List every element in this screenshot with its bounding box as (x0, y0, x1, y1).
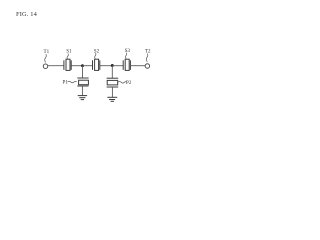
wire S1 to node A (71, 65, 82, 67)
svg-text:P1: P1 (63, 80, 69, 86)
svg-text:S2: S2 (94, 48, 100, 54)
terminal T2 (145, 64, 150, 69)
node B junction dot (111, 64, 114, 67)
wire T1 to S1 (48, 65, 64, 67)
leader squiggle to T1 (45, 54, 47, 63)
resonator P2 (107, 78, 119, 87)
svg-text:P2: P2 (126, 80, 132, 86)
leader squiggle to S2 (95, 53, 96, 59)
resonator S3 (123, 59, 130, 70)
wire P1 to ground (81, 86, 83, 96)
wire node B to S3 (112, 65, 123, 67)
resonator S1 (64, 59, 71, 70)
leader squiggle to S3 (125, 53, 126, 59)
wire S2 to node B (100, 65, 112, 67)
svg-text:FIG. 14: FIG. 14 (16, 11, 38, 18)
ground at P2 (107, 97, 117, 101)
leader squiggle to P2 (118, 82, 127, 84)
leader squiggle to T2 (146, 54, 148, 62)
resonator S2 (93, 59, 100, 70)
wire S3 to T2 (131, 65, 146, 67)
wire P2 to ground (111, 87, 113, 97)
wire node B down to P2 (111, 66, 113, 79)
svg-text:T2: T2 (145, 49, 151, 55)
svg-text:S1: S1 (66, 49, 72, 55)
leader squiggle to S1 (67, 54, 68, 60)
svg-text:T1: T1 (44, 49, 50, 55)
leader squiggle to P1 (68, 81, 77, 83)
resonator P1 (77, 78, 88, 86)
svg-text:S3: S3 (125, 48, 131, 54)
ground at P1 (78, 96, 87, 100)
wire node A to S2 (83, 65, 93, 67)
terminal T1 (43, 64, 48, 69)
node A junction dot (81, 64, 84, 67)
wire node A down to P1 (82, 66, 84, 78)
